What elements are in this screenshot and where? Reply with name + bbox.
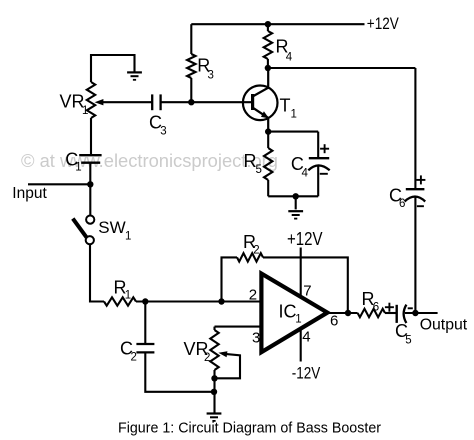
- svg-text:2: 2: [131, 352, 137, 364]
- svg-text:4: 4: [302, 329, 310, 346]
- svg-text:Input: Input: [12, 185, 47, 202]
- svg-text:1: 1: [125, 231, 131, 243]
- svg-text:2: 2: [204, 352, 210, 364]
- svg-text:+12V: +12V: [287, 229, 323, 249]
- svg-text:+12V: +12V: [367, 14, 400, 33]
- svg-text:1: 1: [75, 162, 81, 174]
- svg-text:3: 3: [208, 70, 214, 82]
- svg-text:VR: VR: [60, 92, 85, 112]
- svg-text:6: 6: [330, 313, 338, 330]
- svg-text:Output: Output: [420, 316, 468, 333]
- svg-text:1: 1: [291, 109, 297, 121]
- svg-text:2: 2: [253, 245, 259, 257]
- svg-text:© at www.electronicsproject.or: © at www.electronicsproject.org: [21, 151, 278, 171]
- svg-text:3: 3: [160, 126, 166, 138]
- svg-text:-12V: -12V: [292, 363, 321, 382]
- svg-text:5: 5: [405, 334, 411, 346]
- svg-text:Figure 1: Circuit Diagram of B: Figure 1: Circuit Diagram of Bass Booste…: [118, 419, 381, 436]
- svg-text:1: 1: [295, 314, 301, 326]
- svg-text:3: 3: [252, 329, 260, 346]
- svg-text:T: T: [280, 96, 291, 116]
- svg-text:SW: SW: [98, 218, 125, 237]
- svg-text:1: 1: [82, 105, 88, 117]
- svg-text:6: 6: [399, 198, 405, 210]
- svg-text:1: 1: [125, 290, 131, 302]
- svg-text:7: 7: [303, 283, 311, 300]
- svg-text:5: 5: [256, 164, 262, 176]
- svg-text:6: 6: [373, 302, 379, 314]
- svg-text:2: 2: [249, 286, 257, 303]
- svg-text:IC: IC: [279, 301, 297, 321]
- svg-text:4: 4: [286, 52, 293, 64]
- svg-text:4: 4: [302, 167, 309, 179]
